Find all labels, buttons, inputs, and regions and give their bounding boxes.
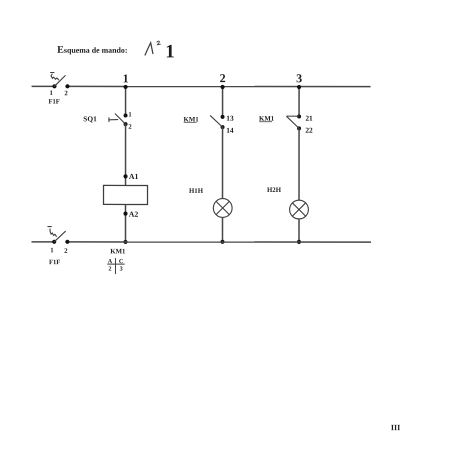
node junction branch1/top rail bbox=[123, 85, 127, 89]
svg-text:2: 2 bbox=[108, 266, 111, 273]
svg-text:1: 1 bbox=[128, 112, 131, 119]
wire branch1 below coil bbox=[124, 204, 126, 241]
fuse-switch F1F top bbox=[51, 73, 70, 89]
contact KM1 NC 21-22 bbox=[287, 114, 301, 130]
cross-reference table lines bbox=[107, 258, 124, 274]
node junction branch1/bottom rail bbox=[123, 240, 127, 244]
cross-reference entry C/3 bbox=[119, 258, 123, 272]
node A1 bbox=[123, 174, 127, 178]
svg-text:F1F: F1F bbox=[49, 259, 60, 266]
top rail wire left segment bbox=[32, 85, 55, 87]
cross-reference entry A/2 bbox=[108, 258, 113, 272]
svg-text:H2H: H2H bbox=[267, 187, 282, 194]
svg-text:F1F: F1F bbox=[48, 99, 59, 106]
bottom rail wire left segment bbox=[31, 241, 54, 243]
svg-text:1: 1 bbox=[50, 90, 54, 97]
lamp H2H bbox=[290, 200, 309, 219]
svg-text:1: 1 bbox=[165, 41, 175, 62]
svg-text:2: 2 bbox=[64, 248, 68, 255]
bottom rail wire right segment bbox=[67, 241, 371, 243]
wire branch1 top bbox=[125, 86, 127, 115]
svg-text:A2: A2 bbox=[129, 210, 139, 219]
wire branch3 top bbox=[298, 87, 300, 117]
coil KM1 rectangle bbox=[104, 185, 148, 204]
svg-text:2: 2 bbox=[128, 124, 132, 131]
wire branch3 middle bbox=[298, 128, 300, 200]
svg-text:Esquema de mando:: Esquema de mando: bbox=[57, 45, 127, 56]
svg-text:A: A bbox=[108, 258, 113, 265]
wire branch2 middle bbox=[222, 127, 224, 199]
svg-text:1: 1 bbox=[50, 247, 54, 254]
svg-text:14: 14 bbox=[226, 126, 234, 135]
svg-text:SQ1: SQ1 bbox=[83, 114, 97, 123]
svg-text:21: 21 bbox=[305, 114, 313, 123]
designator KM1 (branch3) bbox=[259, 116, 275, 123]
svg-text:3: 3 bbox=[296, 71, 302, 85]
handwritten number N bbox=[145, 41, 160, 55]
node junction branch2/bottom rail bbox=[220, 240, 224, 244]
svg-text:H1H: H1H bbox=[189, 188, 204, 195]
node A2 bbox=[123, 212, 127, 216]
svg-text:3: 3 bbox=[120, 266, 123, 273]
svg-text:2: 2 bbox=[220, 71, 226, 85]
wire branch2 bottom bbox=[221, 217, 223, 242]
switch SQ1 contact bbox=[109, 113, 128, 126]
fuse-switch F1F bottom bbox=[48, 227, 70, 244]
contact KM1 NO 13-14 bbox=[210, 115, 224, 129]
svg-text:1: 1 bbox=[123, 71, 129, 85]
node junction branch2/top rail bbox=[220, 85, 224, 89]
svg-text:22: 22 bbox=[305, 126, 313, 135]
wire branch2 top bbox=[222, 86, 224, 116]
top rail wire right segment bbox=[67, 85, 370, 87]
lamp H1H bbox=[213, 199, 232, 218]
wire branch1 middle bbox=[125, 124, 127, 185]
node junction branch3/top rail bbox=[297, 85, 301, 89]
svg-text:KM1: KM1 bbox=[110, 248, 126, 255]
designator KM1 (branch2) bbox=[184, 116, 200, 123]
svg-text:C: C bbox=[119, 258, 123, 265]
wire branch3 bottom bbox=[298, 219, 300, 242]
node junction branch3/bottom rail bbox=[297, 240, 301, 244]
svg-text:III: III bbox=[391, 423, 400, 432]
svg-text:13: 13 bbox=[226, 114, 234, 123]
svg-text:A1: A1 bbox=[129, 172, 139, 181]
svg-text:2: 2 bbox=[64, 90, 68, 97]
